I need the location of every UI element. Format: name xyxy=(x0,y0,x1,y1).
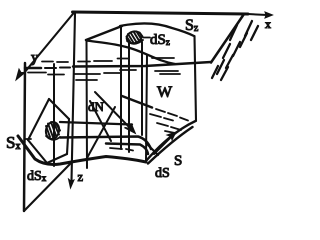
top face edge A xyxy=(86,26,122,40)
plane hatch dashes right xyxy=(212,21,258,80)
svg-text:W: W xyxy=(157,84,173,101)
svg-text:y: y xyxy=(31,50,39,66)
curve C xyxy=(87,41,176,65)
arrow G to dS xyxy=(95,92,135,133)
svg-text:Sz: Sz xyxy=(185,17,199,34)
bowl hatch dashes xyxy=(150,109,188,133)
chimney vertical 4 xyxy=(146,55,147,161)
plane right edge xyxy=(211,14,244,63)
yOz sheet diagonal xyxy=(24,164,70,211)
waterline (plane front edge) xyxy=(25,62,211,68)
diagonal E1 xyxy=(87,107,115,158)
column lower line xyxy=(60,137,151,150)
svg-text:x: x xyxy=(265,17,271,31)
svg-text:dN: dN xyxy=(88,99,105,114)
svg-text:S: S xyxy=(174,153,182,169)
funnel left inner edge xyxy=(106,144,148,155)
y axis xyxy=(16,12,75,80)
diagonal E2 xyxy=(90,101,111,141)
vertical x54 xyxy=(53,64,55,166)
chimney vertical 1 xyxy=(120,26,122,149)
ellipse dSz xyxy=(125,30,143,45)
column upper line xyxy=(60,122,132,125)
ellipse dSx xyxy=(44,121,60,140)
x axis xyxy=(73,12,273,18)
z axis xyxy=(69,13,76,188)
body bottom curve xyxy=(18,136,146,164)
pentagon Sx region xyxy=(28,99,69,163)
plane dashes left xyxy=(28,58,180,151)
svg-text:dS: dS xyxy=(155,166,170,181)
body right vertical edge xyxy=(195,36,197,121)
chimney vertical 3 xyxy=(141,42,143,135)
label dSz with dash xyxy=(143,32,170,48)
vertical x87 xyxy=(86,40,89,168)
Sx pointer xyxy=(25,138,31,140)
dS cross mark xyxy=(146,143,158,155)
svg-text:z: z xyxy=(78,170,84,184)
normal arrow at dS xyxy=(154,132,176,154)
funnel right double edge xyxy=(146,121,196,164)
svg-text:dSx: dSx xyxy=(27,169,47,184)
chimney vertical 2 xyxy=(128,43,130,152)
svg-text:dSz: dSz xyxy=(150,32,170,48)
top face back curve xyxy=(120,23,194,36)
bowl inner edge xyxy=(122,96,152,108)
yOz sheet vertical xyxy=(24,63,25,211)
